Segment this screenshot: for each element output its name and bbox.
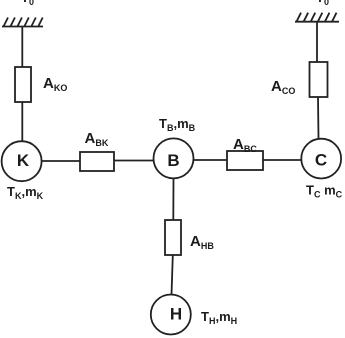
svg-text:TB,mB: TB,mB [159, 116, 196, 133]
wire A_BK to node B [114, 160, 154, 162]
svg-text:C: C [315, 151, 327, 170]
resistor A_BC [227, 151, 263, 170]
node B [154, 138, 194, 178]
node K [2, 141, 42, 181]
resistor A_BK [80, 152, 114, 171]
svg-text:T0: T0 [316, 0, 329, 7]
wire B to A_BC [194, 159, 228, 161]
wire ground to A_KO [21, 27, 23, 68]
wire C to A_CO [317, 97, 320, 139]
svg-text:H: H [170, 305, 182, 324]
svg-text:ABK: ABK [85, 130, 109, 148]
wire A_CO to ground [316, 22, 318, 62]
ground (ambient T0, left) [2, 18, 43, 27]
wire A_HB to node H [172, 255, 173, 295]
svg-text:ACO: ACO [271, 78, 295, 96]
node H [151, 295, 191, 335]
node C [301, 139, 341, 179]
svg-text:AKO: AKO [43, 75, 67, 93]
wire A_BC to node C [263, 159, 302, 161]
resistor A_KO [15, 67, 31, 102]
resistor A_HB [165, 220, 181, 255]
wire B to A_HB [172, 178, 174, 220]
wire A_KO to node K [21, 102, 23, 142]
svg-text:T0: T0 [21, 0, 34, 7]
wire K to A_BK [42, 160, 81, 162]
svg-text:AHB: AHB [190, 233, 214, 251]
resistor A_CO [310, 62, 328, 97]
svg-text:K: K [17, 151, 30, 170]
svg-text:TH,mH: TH,mH [201, 309, 237, 326]
svg-text:TC mC: TC mC [306, 183, 343, 200]
ground (ambient T0, right) [295, 13, 339, 22]
svg-text:B: B [167, 151, 179, 170]
svg-text:ABC: ABC [233, 136, 257, 154]
svg-text:TK,mK: TK,mK [7, 184, 44, 201]
